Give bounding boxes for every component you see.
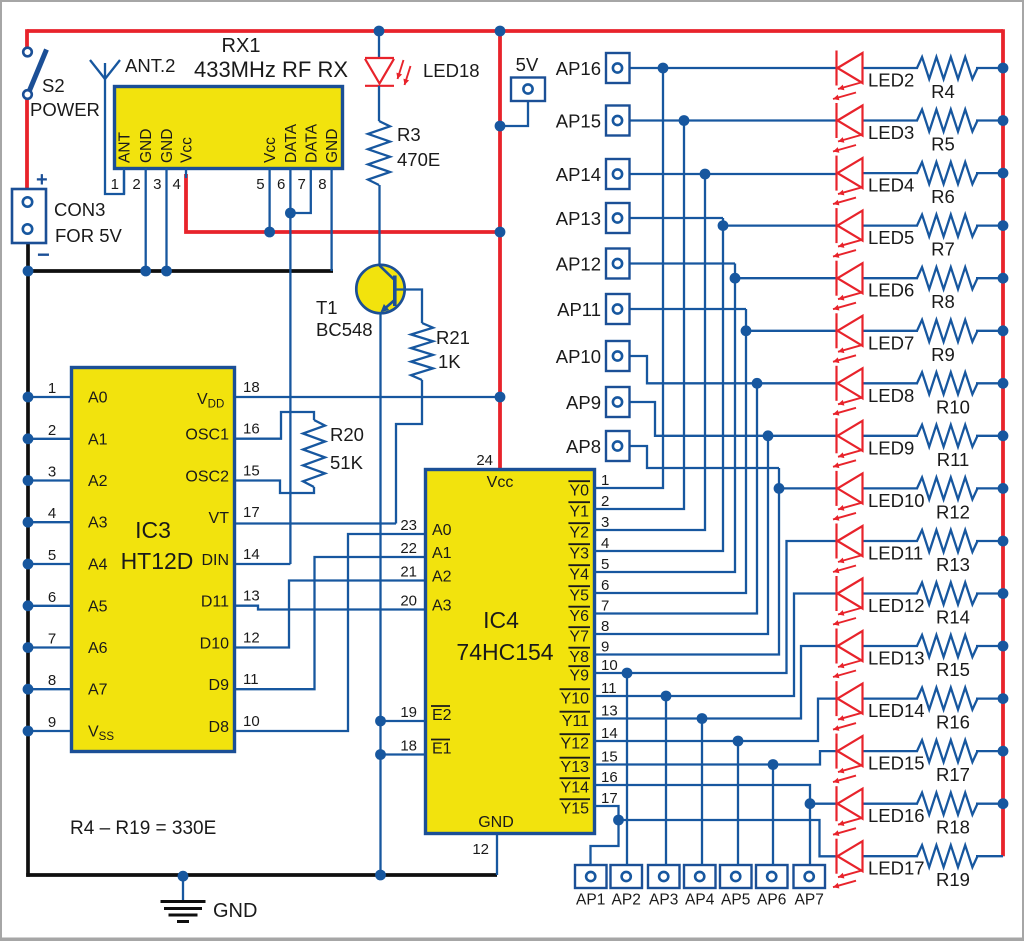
node RX1 pin6 pin7: [285, 208, 296, 219]
pin label D11 of IC3: [201, 594, 229, 611]
label 1K: [438, 351, 461, 372]
pin label A2 of IC3: [88, 473, 108, 490]
pin label Y1 of IC4: [568, 502, 590, 520]
svg-text:ANT: ANT: [117, 131, 134, 163]
pin number 13 of IC3: [243, 588, 260, 605]
svg-text:2: 2: [601, 493, 609, 510]
node Y junction 15: [613, 815, 624, 826]
pin label OSC2 of IC3: [185, 469, 229, 486]
svg-text:A6: A6: [88, 640, 108, 657]
svg-text:16: 16: [243, 421, 260, 438]
connector AP6: [756, 865, 788, 888]
wire T1 base to R21: [396, 290, 422, 324]
label IC3: [135, 517, 171, 543]
wire AP6 to Y13: [772, 765, 774, 866]
svg-text:R18: R18: [936, 817, 970, 838]
pin number 2 of RX1: [132, 176, 140, 193]
pin label VDD of IC3: [197, 391, 224, 411]
pin number 2 of IC4: [601, 493, 609, 510]
switch S2: [23, 48, 46, 99]
resistor R20 51K: [303, 420, 325, 487]
svg-text:A0: A0: [88, 390, 108, 407]
resistor R13: [917, 530, 978, 552]
LED7: [833, 313, 863, 363]
node 5V rail row 10: [998, 483, 1009, 494]
svg-text:ANT.2: ANT.2: [125, 55, 175, 76]
connector AP3: [648, 865, 680, 888]
label R6: [931, 186, 955, 207]
svg-text:6: 6: [277, 176, 285, 193]
pin number 12 of IC4: [472, 841, 489, 858]
svg-text:RX1: RX1: [222, 35, 261, 57]
wire Y2 to LED row 4: [594, 173, 705, 530]
svg-text:R15: R15: [936, 659, 970, 680]
svg-text:LED17: LED17: [868, 858, 925, 879]
wire IC3 pin 7 stub: [23, 642, 71, 653]
pin number 9 of IC3: [48, 714, 56, 731]
svg-text:GND: GND: [324, 129, 341, 163]
label LED7: [868, 332, 914, 353]
svg-text:A2: A2: [88, 473, 108, 490]
label AP6: [757, 892, 786, 909]
svg-text:Y7: Y7: [569, 628, 589, 645]
label R7: [931, 239, 955, 260]
svg-text:R11: R11: [937, 449, 970, 470]
pin label A3 of IC4: [432, 598, 452, 615]
pin label Y3 of IC4: [568, 544, 590, 562]
wire Y1 to LED row 3: [594, 121, 684, 510]
wire IC3 pin 4 stub: [23, 517, 71, 528]
svg-text:17: 17: [601, 790, 618, 807]
resistor R9: [917, 320, 978, 342]
wire Y15 to LED17: [594, 806, 837, 856]
pin label Vcc of IC4: [487, 474, 514, 491]
pin number 10 of IC3: [243, 713, 260, 730]
svg-text:7: 7: [297, 176, 305, 193]
svg-text:AP11: AP11: [557, 299, 601, 320]
svg-text:AP1: AP1: [576, 892, 605, 909]
svg-text:8: 8: [48, 672, 56, 689]
svg-text:R9: R9: [931, 344, 955, 365]
node Y junction 1: [679, 115, 690, 126]
wire AP4 to Y11: [701, 719, 703, 866]
svg-text:Vcc: Vcc: [487, 474, 514, 491]
svg-text:2: 2: [132, 176, 140, 193]
svg-text:8: 8: [318, 176, 326, 193]
wire 5V right rail: [1001, 29, 1005, 856]
wire LED10 row: [629, 446, 1003, 488]
pin number 7 of RX1: [297, 176, 305, 193]
wire LED4 row: [629, 172, 1003, 175]
wire Y6 to LED row 8: [594, 383, 757, 613]
svg-text:13: 13: [243, 588, 260, 605]
svg-text:14: 14: [243, 546, 260, 563]
label LED8: [868, 385, 914, 406]
node VDD rail: [495, 392, 506, 403]
node Y junction 7: [763, 430, 774, 441]
wire OSC1 pin16 to R20: [236, 412, 314, 439]
wire Y14 to LED16 and AP7: [594, 785, 810, 865]
label R18: [936, 817, 970, 838]
label AP3: [649, 892, 678, 909]
wire Y11 to LED row 13: [594, 646, 837, 719]
wire 5V switch feed: [25, 29, 29, 47]
label R11: [937, 449, 970, 470]
resistor R4: [917, 57, 978, 79]
wire D8 pin10 to IC4 A0: [236, 534, 424, 731]
pin label Y5 of IC4: [568, 586, 590, 604]
wire Y7 to LED row 9: [594, 436, 768, 634]
node Y junction 12: [733, 736, 744, 747]
LED6: [833, 261, 863, 311]
svg-text:R17: R17: [936, 764, 970, 785]
svg-text:18: 18: [243, 379, 260, 396]
svg-text:5: 5: [601, 556, 609, 573]
module RX1 433MHz RF RX: [115, 87, 343, 169]
wire AP3 to Y10: [665, 696, 667, 865]
label R14: [936, 607, 970, 628]
wire RX1 pin1 stub to antenna: [123, 168, 125, 194]
label LED5: [868, 227, 914, 248]
wire GND upper branch: [28, 269, 333, 273]
wire switch to CON3 plus: [25, 99, 29, 189]
pin label A3 of IC3: [88, 515, 108, 532]
label RX1: [222, 35, 261, 57]
svg-text:CON3: CON3: [54, 199, 105, 220]
pin label Y10 of IC4: [560, 689, 590, 707]
svg-text:R8: R8: [931, 291, 955, 312]
node Y junction 0: [658, 63, 669, 74]
node emitter GND: [375, 870, 386, 881]
pin label Y14 of IC4: [560, 778, 590, 796]
pin label GND pin 3 of RX1: [159, 129, 176, 163]
label IC4: [483, 607, 519, 633]
IC IC4 74HC154: [426, 470, 595, 834]
wire AP1 to Y15: [591, 820, 619, 865]
svg-text:POWER: POWER: [30, 99, 100, 120]
svg-text:Y12: Y12: [561, 735, 590, 752]
node RX1 pin5 5V: [264, 227, 275, 238]
node 5V rail row 5: [998, 220, 1009, 231]
svg-text:18: 18: [400, 738, 417, 755]
connector AP14: [606, 159, 630, 189]
pin number 11 of IC3: [243, 671, 259, 688]
label LED3: [868, 122, 914, 143]
wire LED5 row: [629, 218, 1003, 226]
LED11: [833, 524, 863, 574]
svg-text:LED9: LED9: [868, 437, 914, 458]
label R15: [936, 659, 970, 680]
pin label A2 of IC4: [432, 569, 452, 586]
label AP5: [721, 892, 750, 909]
wire Y5 to LED row 7: [594, 309, 746, 593]
svg-text:LED5: LED5: [868, 227, 914, 248]
resistor R8: [917, 267, 978, 289]
label LED15: [868, 753, 925, 774]
wire IC3 pin 2 stub: [23, 433, 71, 444]
connector AP5: [720, 865, 752, 888]
LED17: [833, 839, 863, 889]
wire E1 pin18 to GND: [375, 749, 425, 760]
pin label DATA pin 7 of RX1: [303, 123, 320, 163]
wire IC3 pin 5 stub: [23, 559, 71, 570]
connector AP13: [606, 203, 630, 233]
pin label D8 of IC3: [209, 719, 230, 736]
node 5V rail row 9: [998, 430, 1009, 441]
svg-text:R6: R6: [931, 186, 955, 207]
label 74HC154: [456, 639, 553, 665]
LED2: [833, 51, 863, 101]
svg-text:Y1: Y1: [569, 503, 589, 520]
wire DIN pin14: [236, 563, 290, 565]
resistor R5: [917, 110, 978, 132]
node 5V rail LED18 tap: [374, 26, 385, 37]
svg-text:12: 12: [472, 841, 489, 858]
label AP12: [556, 254, 601, 275]
wire LED18 to R3: [378, 86, 380, 121]
svg-text:LED7: LED7: [868, 332, 914, 353]
wire IC3 pin 3 stub: [23, 475, 71, 486]
wire RX1 pin4 Vcc stub: [185, 168, 187, 178]
label R17: [936, 764, 970, 785]
label R19: [936, 869, 970, 890]
pin number 4 of IC3: [48, 505, 56, 522]
label AP13: [556, 208, 601, 229]
svg-text:R16: R16: [936, 712, 970, 733]
pin number 14 of IC4: [601, 725, 618, 742]
node Y junction 14: [805, 798, 816, 809]
node 5V rail row 13: [998, 641, 1009, 652]
wire IC3 pin 6 stub: [23, 600, 71, 611]
svg-text:AP15: AP15: [556, 111, 601, 132]
pin number 18 of IC4: [400, 738, 417, 755]
label R13: [936, 554, 970, 575]
pin number 6 of RX1: [277, 176, 285, 193]
wire IC4 GND pin12: [496, 835, 498, 875]
svg-text:R14: R14: [936, 607, 970, 628]
wire Y3 to LED row 5: [594, 218, 723, 551]
LED9: [833, 418, 863, 468]
pin label Y2 of IC4: [568, 523, 590, 541]
node Y junction 8: [774, 483, 785, 494]
resistor R7: [917, 215, 978, 237]
svg-text:21: 21: [400, 564, 417, 581]
svg-text:LED18: LED18: [423, 60, 480, 81]
svg-text:R12: R12: [936, 501, 970, 522]
svg-text:5V: 5V: [516, 54, 539, 75]
label R20: [330, 424, 364, 445]
svg-text:A3: A3: [432, 598, 452, 615]
pin number 22 of IC4: [400, 540, 417, 557]
pin label ANT pin 1 of RX1: [117, 131, 134, 163]
node 5V rail row 16: [998, 798, 1009, 809]
svg-text:9: 9: [48, 714, 56, 731]
antenna ANT.2: [90, 60, 124, 194]
svg-text:23: 23: [400, 517, 417, 534]
svg-text:17: 17: [243, 504, 260, 521]
svg-text:AP5: AP5: [721, 892, 750, 909]
node 5V rail center tap: [495, 26, 506, 37]
wire 5V top rail: [27, 29, 1003, 33]
svg-text:AP13: AP13: [556, 208, 601, 229]
svg-text:14: 14: [601, 725, 618, 742]
svg-text:R4: R4: [931, 81, 955, 102]
label AP8: [566, 436, 601, 457]
label LED14: [868, 700, 925, 721]
svg-text:10: 10: [601, 657, 618, 674]
svg-text:16: 16: [601, 769, 618, 786]
svg-text:AP7: AP7: [795, 892, 824, 909]
label AP10: [556, 346, 601, 367]
node Y junction 9: [622, 668, 633, 679]
svg-text:LED4: LED4: [868, 175, 914, 196]
label FOR 5V: [55, 225, 122, 246]
svg-text:AP2: AP2: [612, 892, 641, 909]
wire GND left vertical: [26, 243, 30, 877]
svg-text:LED10: LED10: [868, 490, 925, 511]
wire Y12 to LED row 14: [594, 699, 837, 741]
svg-text:3: 3: [601, 514, 609, 531]
pin label OSC1 of IC3: [185, 427, 229, 444]
pin label Vss of IC3: [88, 724, 114, 744]
pin label E1 of IC4: [431, 740, 452, 758]
svg-text:R3: R3: [397, 124, 421, 145]
svg-text:R19: R19: [936, 869, 970, 890]
svg-text:433MHz RF RX: 433MHz RF RX: [194, 57, 348, 82]
svg-text:AP14: AP14: [556, 164, 601, 185]
svg-text:R21: R21: [436, 327, 470, 348]
LED12: [833, 576, 863, 626]
svg-text:A1: A1: [432, 545, 452, 562]
connector AP11: [606, 294, 630, 324]
label AP1: [576, 892, 605, 909]
svg-text:GND: GND: [159, 129, 176, 163]
node Y junction 4: [730, 273, 741, 284]
node 5V rail row 12: [998, 588, 1009, 599]
svg-text:LED8: LED8: [868, 385, 914, 406]
pin label Y9 of IC4: [568, 666, 590, 684]
pin number 8 of IC3: [48, 672, 56, 689]
svg-text:Y5: Y5: [569, 587, 589, 604]
svg-text:VT: VT: [209, 510, 230, 527]
pin label A0 of IC3: [88, 390, 108, 407]
wire LED9 row: [629, 402, 1003, 436]
label AP4: [685, 892, 715, 909]
svg-text:Y4: Y4: [569, 566, 589, 583]
wire IC3 pin 9 stub: [23, 726, 71, 737]
wire IC3 pin 8 stub: [23, 684, 71, 695]
pin label GND of IC4: [478, 814, 514, 831]
svg-text:19: 19: [400, 704, 417, 721]
svg-text:R5: R5: [931, 134, 955, 155]
pin label Y4 of IC4: [568, 565, 590, 583]
pin number 16 of IC4: [601, 769, 618, 786]
wire RX1 pin3 GND: [161, 168, 172, 276]
svg-text:51K: 51K: [330, 452, 364, 473]
svg-text:Y15: Y15: [561, 800, 590, 817]
svg-text:LED12: LED12: [868, 595, 925, 616]
pin label Vcc pin 5 of RX1: [262, 137, 279, 163]
label GND: [213, 900, 257, 922]
pin label E2 of IC4: [431, 706, 452, 724]
pin number 12 of IC3: [243, 630, 260, 647]
label ANT.2: [125, 55, 175, 76]
wire LED12 row: [863, 592, 1003, 594]
pin number 24 of IC4: [476, 452, 493, 469]
pin number 15 of IC3: [243, 463, 260, 480]
svg-text:+: +: [36, 169, 48, 191]
svg-text:11: 11: [243, 671, 259, 688]
svg-text:3: 3: [153, 176, 161, 193]
node 5V rail row 14: [998, 693, 1009, 704]
svg-text:Y11: Y11: [562, 713, 589, 730]
resistor R18: [917, 793, 978, 815]
svg-text:R13: R13: [936, 554, 970, 575]
wire LED8 row: [629, 356, 1003, 383]
svg-text:A3: A3: [88, 515, 108, 532]
svg-text:Vcc: Vcc: [178, 137, 195, 163]
label AP16: [556, 58, 601, 79]
connector CON3: [12, 189, 46, 243]
svg-text:LED15: LED15: [868, 753, 925, 774]
svg-text:8: 8: [601, 618, 609, 635]
svg-text:AP12: AP12: [556, 254, 601, 275]
svg-text:74HC154: 74HC154: [456, 639, 553, 665]
transistor T1: [356, 265, 404, 313]
pin label Y8 of IC4: [568, 648, 590, 666]
node Y junction 6: [752, 378, 763, 389]
wire LED6 row: [629, 264, 1003, 279]
svg-text:AP8: AP8: [566, 436, 601, 457]
svg-text:4: 4: [48, 505, 56, 522]
svg-text:A1: A1: [88, 431, 108, 448]
wire LED15 row: [863, 750, 1003, 752]
wire Vcc pin4 rail: [186, 174, 500, 232]
LED8: [833, 366, 863, 416]
pin number 18 of IC3: [243, 379, 260, 396]
LED10: [833, 471, 863, 521]
resistor R10: [917, 372, 978, 394]
pin number 5 of RX1: [256, 176, 264, 193]
pin number 8 of RX1: [318, 176, 326, 193]
svg-text:9: 9: [601, 639, 609, 656]
pin number 5 of IC4: [601, 556, 609, 573]
pin number 9 of IC4: [601, 639, 609, 656]
label CON3: [54, 199, 105, 220]
pin number 1 of IC4: [601, 472, 609, 489]
resistor R6: [917, 162, 978, 184]
pin label A6 of IC3: [88, 640, 108, 657]
svg-text:20: 20: [400, 593, 417, 610]
svg-text:E2: E2: [432, 707, 452, 724]
connector AP10: [606, 341, 630, 371]
wire OSC2 pin15 to R20: [236, 481, 314, 494]
svg-text:Y3: Y3: [569, 545, 589, 562]
pin number 13 of IC4: [601, 703, 618, 720]
svg-text:Y0: Y0: [569, 482, 589, 499]
wire Y13 to LED row 15: [594, 751, 837, 764]
label 470E: [397, 149, 440, 170]
pin label Y11 of IC4: [560, 712, 590, 730]
pin number 3 of IC3: [48, 464, 56, 481]
node 5V rail cross: [495, 227, 506, 238]
svg-text:GND: GND: [478, 814, 514, 831]
svg-text:24: 24: [476, 452, 493, 469]
resistor R15: [917, 635, 978, 657]
pin label A1 of IC3: [88, 431, 108, 448]
node Y junction 2: [700, 169, 711, 180]
wire LED2 row: [629, 67, 1003, 69]
